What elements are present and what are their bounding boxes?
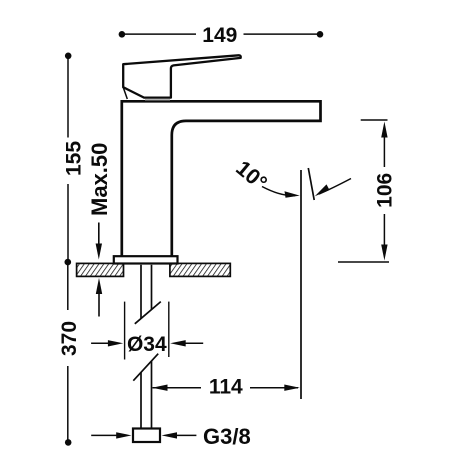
- dimension 106 top tick: [361, 119, 388, 121]
- dimension 370 bottom dot: [65, 439, 72, 446]
- dimension 149 left dot: [119, 31, 126, 38]
- svg-text:106: 106: [374, 173, 397, 208]
- pipe break mark lower: [133, 354, 158, 381]
- water stream line: [300, 170, 302, 399]
- shared dot at counter surface: [65, 259, 72, 266]
- 10 degree tilted stream line: [308, 168, 314, 200]
- dimension 114 line: [153, 387, 202, 389]
- dimension 149 right dot: [317, 31, 324, 38]
- 10 degree arc right with arrowhead: [319, 179, 351, 195]
- G3/8 right arrow: [177, 434, 197, 436]
- dimension 149 line: [124, 33, 196, 35]
- diameter 34 left extension line: [124, 302, 126, 360]
- supply pipe right line upper segment: [151, 265, 153, 310]
- pipe break mark upper: [135, 302, 161, 324]
- faucet lever handle: [123, 55, 241, 97]
- dimension 106 bottom tick: [338, 261, 389, 263]
- Max.50 down arrow: [98, 223, 100, 247]
- base flange: [114, 256, 178, 263]
- Max.50 up arrow: [98, 294, 100, 317]
- handle joint line: [145, 99, 170, 101]
- diameter 34 right arrow: [186, 342, 204, 344]
- dimension 114 right arrowhead: [284, 385, 300, 391]
- handle base sliver line: [123, 87, 127, 99]
- supply pipe left line lower segment: [140, 372, 142, 428]
- countertop hatched band left block: [77, 263, 124, 276]
- svg-text:114: 114: [209, 375, 243, 398]
- countertop hatched band right block: [170, 263, 230, 276]
- svg-text:149: 149: [202, 24, 237, 47]
- dimension 155 top dot: [65, 53, 72, 60]
- faucet body and spout outline: [122, 101, 321, 257]
- supply pipe left line upper segment: [140, 265, 142, 319]
- svg-text:370: 370: [58, 321, 81, 356]
- G3/8 threaded end block: [133, 429, 160, 443]
- svg-text:G3/8: G3/8: [203, 424, 251, 449]
- G3/8 left arrow: [91, 434, 117, 436]
- diameter 34 left arrow: [91, 342, 109, 344]
- supply pipe right line lower segment: [151, 361, 153, 428]
- diameter 34 right extension line: [168, 302, 170, 357]
- dimension 106 down arrowhead: [381, 245, 387, 261]
- svg-text:155: 155: [63, 141, 86, 176]
- dimension 106 up arrowhead: [381, 122, 387, 138]
- svg-text:Ø34: Ø34: [127, 333, 167, 356]
- dimension 155 line: [67, 58, 69, 138]
- dimension 114 left arrowhead: [152, 385, 168, 391]
- 10 degree arc left with arrowhead: [262, 187, 295, 196]
- svg-text:Max.50: Max.50: [87, 143, 112, 216]
- dimension 370 line: [67, 265, 69, 310]
- dimension 106 line: [383, 136, 385, 167]
